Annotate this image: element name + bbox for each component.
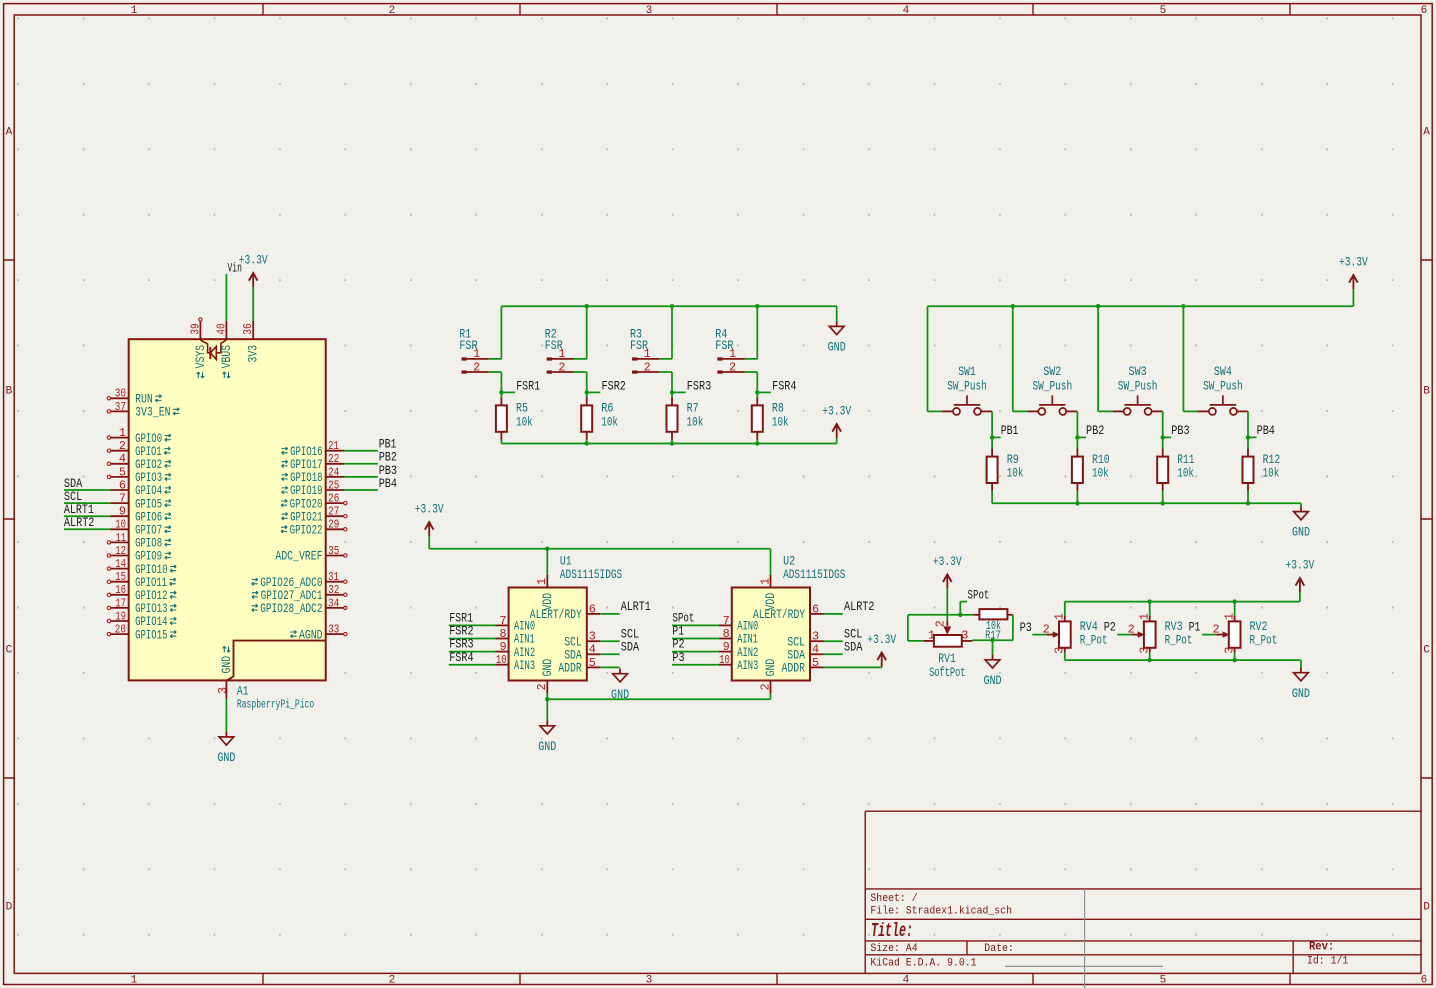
wire + label P3 [672, 650, 719, 665]
svg-text:2: 2 [535, 683, 549, 690]
sensor R4 FSR [715, 327, 744, 375]
svg-text:SW3: SW3 [1129, 364, 1147, 379]
U1 pin 6 ALERT/RDY [530, 602, 601, 622]
svg-text:ALERT/RDY: ALERT/RDY [753, 608, 805, 622]
svg-text:SDA: SDA [564, 649, 582, 663]
pico pin 29 GPIO22 [281, 518, 347, 538]
U A1 RaspberryPi_Pico body [129, 339, 326, 680]
svg-text:R7: R7 [687, 401, 699, 416]
sensor R1 FSR [459, 327, 488, 375]
svg-text:4: 4 [812, 643, 819, 657]
wire node to R17 [960, 614, 973, 616]
U2 ADDR to +3.3V [824, 666, 882, 669]
svg-text:SW1: SW1 [958, 364, 976, 379]
svg-text:P3: P3 [672, 650, 684, 665]
power +3.3V (ADC supply) [415, 502, 444, 536]
svg-text:2: 2 [644, 360, 651, 374]
svg-text:3: 3 [216, 687, 230, 694]
wire RV1 pin1 loop to SPot node [908, 615, 960, 641]
svg-text:19: 19 [115, 609, 126, 623]
U1 pin 1 VDD [535, 575, 555, 611]
svg-text:PB3: PB3 [1171, 423, 1189, 438]
svg-text:29: 29 [328, 518, 339, 532]
svg-text:+3.3V: +3.3V [933, 554, 962, 569]
wire pin2 down to FSR node [745, 372, 758, 392]
svg-text:3: 3 [961, 629, 968, 643]
svg-text:GPIO12: GPIO12 [135, 589, 167, 603]
svg-text:P3: P3 [1020, 620, 1032, 635]
U1 pin 3 SCL [564, 630, 600, 650]
pico pin 7 GPIO5 [110, 492, 170, 512]
pico pin 40 VBUS [214, 321, 234, 378]
pico pin 26 GPIO20 [281, 492, 347, 512]
svg-text:P2: P2 [1104, 619, 1116, 634]
svg-text:A: A [6, 127, 13, 139]
pico pin 27 GPIO21 [282, 505, 347, 525]
svg-text:GPIO2: GPIO2 [135, 458, 162, 472]
svg-text:AIN3: AIN3 [737, 659, 758, 673]
resistor R12 10k [1243, 449, 1281, 491]
svg-text:8: 8 [723, 627, 730, 641]
wire rail drop to switch [1183, 306, 1198, 411]
svg-text:2: 2 [119, 439, 126, 453]
svg-text:3: 3 [1053, 647, 1067, 654]
svg-text:SW_Push: SW_Push [1118, 378, 1158, 393]
svg-text:17: 17 [115, 596, 126, 610]
svg-text:GPIO6: GPIO6 [135, 510, 162, 524]
svg-text:+3.3V: +3.3V [867, 632, 896, 647]
svg-text:FSR: FSR [715, 338, 733, 353]
wire node to resistor [586, 392, 588, 398]
svg-text:AIN1: AIN1 [737, 633, 758, 647]
power +3.3V (switch rail) [1339, 255, 1368, 289]
svg-text:Id: 1/1: Id: 1/1 [1307, 956, 1349, 968]
wire GND bottom rail [1065, 659, 1301, 661]
power +3.3V (FSR pulldown rail) [822, 404, 851, 438]
svg-text:+3.3V: +3.3V [239, 253, 268, 268]
svg-text:ALRT1: ALRT1 [621, 599, 651, 614]
resistor R9 10k [987, 449, 1024, 491]
ground (pico) [217, 732, 235, 765]
svg-text:SPot: SPot [968, 587, 990, 602]
svg-text:C: C [6, 644, 13, 656]
U1 pin 10 AIN3 [496, 653, 536, 673]
svg-text:ALRT2: ALRT2 [64, 515, 95, 530]
U2 pin 8 AIN1 [719, 627, 758, 647]
junction bottom rail [1232, 658, 1236, 662]
svg-text:ADDR: ADDR [558, 662, 582, 676]
wire + label SPot [672, 611, 719, 626]
pico pin 11 GPIO8 [107, 531, 171, 551]
node FSR1 [499, 378, 540, 394]
power +3.3V (SoftPot wiper) [933, 554, 962, 588]
wire resistor to bottom rail [500, 440, 502, 444]
svg-text:PB1: PB1 [1001, 423, 1019, 438]
svg-text:Title:: Title: [871, 920, 913, 942]
svg-text:GPIO14: GPIO14 [135, 615, 167, 629]
svg-text:20: 20 [115, 623, 126, 637]
pico pin 31 GPIO26_ADC0 [252, 570, 347, 590]
svg-text:SW2: SW2 [1043, 364, 1061, 379]
svg-text:4: 4 [903, 5, 910, 17]
wire switch to PB node [991, 411, 993, 437]
U2 pin 1 VDD [758, 575, 778, 611]
svg-text:R11: R11 [1177, 452, 1194, 467]
svg-text:GPIO26_ADC0: GPIO26_ADC0 [260, 576, 322, 590]
svg-text:26: 26 [328, 492, 339, 506]
svg-text:GND: GND [217, 750, 235, 765]
ground (switch pulldown rail) [1292, 506, 1310, 539]
U2 pin 7 AIN0 [719, 614, 759, 634]
svg-text:6: 6 [1421, 5, 1428, 17]
wire + label FSR2 [449, 624, 496, 639]
wire to GND [992, 640, 994, 654]
pico pin 14 GPIO10 [107, 557, 176, 577]
wire resistor to bottom rail [1247, 491, 1249, 504]
svg-text:GND: GND [764, 659, 778, 677]
svg-text:ALERT/RDY: ALERT/RDY [530, 608, 582, 622]
svg-text:7: 7 [499, 614, 506, 628]
resistor R10 10k [1072, 449, 1110, 491]
svg-text:34: 34 [328, 596, 339, 610]
junction top rail [670, 304, 674, 308]
svg-text:PB4: PB4 [379, 476, 397, 491]
svg-text:FSR: FSR [545, 338, 563, 353]
junction U1 GND [545, 697, 549, 701]
svg-text:VSYS: VSYS [194, 345, 208, 369]
wire rail to +3.3V [1299, 592, 1301, 602]
svg-text:GPIO13: GPIO13 [135, 602, 167, 616]
svg-text:31: 31 [328, 570, 339, 584]
wire + label P2 [672, 637, 719, 652]
wire + label ALRT1 [64, 502, 111, 517]
svg-text:GPIO9: GPIO9 [135, 550, 162, 564]
svg-text:B: B [6, 386, 13, 398]
svg-text:RV1: RV1 [938, 651, 956, 666]
svg-text:GND: GND [1292, 525, 1310, 540]
wire U1 VDD drop [546, 549, 548, 575]
pico pin 34 GPIO28_ADC2 [252, 596, 347, 616]
wire node to resistor [1247, 437, 1249, 449]
svg-text:GPIO4: GPIO4 [135, 484, 162, 498]
svg-text:SDA: SDA [787, 649, 805, 663]
junction top rail [1232, 599, 1236, 603]
svg-text:ADS1115IDGS: ADS1115IDGS [560, 567, 623, 582]
svg-text:RaspberryPi_Pico: RaspberryPi_Pico [237, 698, 314, 712]
wire to GND (top rail) [836, 306, 838, 321]
svg-text:10k: 10k [1007, 466, 1024, 481]
U1 pin 4 SDA [564, 643, 600, 663]
wire to +3.3V [252, 287, 254, 321]
svg-text:A: A [1423, 127, 1430, 139]
pico pin 3 GND [216, 646, 234, 699]
svg-text:25: 25 [328, 478, 339, 492]
svg-text:PB2: PB2 [1086, 423, 1104, 438]
power +3.3V (pots) [1286, 558, 1315, 592]
svg-text:3V3_EN: 3V3_EN [135, 406, 170, 420]
wire pin2 down to FSR node [659, 372, 672, 392]
svg-text:GPIO16: GPIO16 [290, 445, 322, 459]
diode graphic inside Pico between VSYS and VBUS [200, 340, 226, 360]
svg-text:6: 6 [589, 602, 596, 616]
junction bottom rail [1075, 501, 1079, 505]
svg-text:ALRT2: ALRT2 [844, 599, 875, 614]
wire U2 VDD drop [770, 549, 772, 575]
svg-text:GPIO28_ADC2: GPIO28_ADC2 [260, 602, 322, 616]
wire pin3 to bottom rail [1149, 653, 1151, 660]
U1 pin 2 GND [535, 659, 555, 694]
svg-text:AIN1: AIN1 [514, 633, 535, 647]
wire + label PB4 [344, 476, 397, 491]
svg-text:10k: 10k [1177, 466, 1194, 481]
switch SW2 SW_Push [1027, 364, 1077, 415]
wire node to resistor [671, 392, 673, 398]
svg-text:9: 9 [723, 640, 730, 654]
svg-text:10k: 10k [772, 414, 789, 429]
junction U1 VDD on rail [545, 547, 549, 551]
pico pin 5 GPIO3 [107, 465, 171, 485]
svg-text:10: 10 [719, 653, 730, 667]
node FSR2 [585, 378, 626, 394]
svg-text:R_Pot: R_Pot [1165, 632, 1193, 647]
svg-text:D: D [1423, 902, 1430, 914]
wire pico GND [225, 699, 227, 732]
svg-text:4: 4 [903, 974, 910, 986]
svg-text:C: C [1423, 644, 1430, 656]
svg-text:GPIO22: GPIO22 [290, 524, 323, 538]
wire down to GND [546, 699, 548, 720]
svg-text:GPIO11: GPIO11 [135, 576, 167, 590]
pico pin 22 GPIO17 [282, 452, 345, 472]
svg-text:SDA: SDA [621, 639, 639, 654]
svg-text:21: 21 [328, 439, 339, 453]
node PB1 [990, 423, 1019, 440]
svg-text:39: 39 [188, 323, 202, 334]
U2 pin 2 GND [758, 659, 778, 694]
sensor R2 FSR [545, 327, 574, 375]
svg-text:GPIO8: GPIO8 [135, 537, 162, 551]
wire resistor to bottom rail [1076, 491, 1078, 504]
svg-text:3: 3 [1138, 647, 1152, 654]
svg-text:GPIO18: GPIO18 [290, 471, 322, 485]
op-amp/ADC U2 ADS1115IDGS body [732, 588, 810, 681]
resistor R6 10k [581, 397, 618, 439]
svg-text:D: D [6, 902, 13, 914]
svg-text:1: 1 [119, 426, 126, 440]
wire rail drop to switch [928, 306, 943, 411]
ground (U1 ADDR) [611, 669, 629, 702]
svg-text:+3.3V: +3.3V [822, 404, 851, 419]
pico pin 17 GPIO13 [107, 596, 176, 616]
svg-text:35: 35 [328, 544, 339, 558]
svg-text:Size: A4: Size: A4 [870, 943, 918, 955]
pico pin 19 GPIO14 [107, 609, 176, 629]
pico pin 21 GPIO16 [282, 439, 345, 459]
wire + label SDA [824, 639, 863, 654]
svg-text:File: Stradex1.kicad_sch: File: Stradex1.kicad_sch [870, 905, 1012, 917]
svg-text:1: 1 [131, 974, 138, 986]
svg-text:GPIO15: GPIO15 [135, 628, 167, 642]
wire switch to PB node [1076, 411, 1078, 437]
wire pin1 to top rail [745, 306, 758, 359]
svg-text:R_Pot: R_Pot [1250, 632, 1278, 647]
pico pin 4 GPIO2 [107, 452, 171, 472]
svg-text:5: 5 [1160, 5, 1167, 17]
resistor R5 10k [496, 397, 533, 439]
wire node to resistor [991, 437, 993, 449]
svg-text:2: 2 [558, 360, 565, 374]
pico pin 16 GPIO12 [107, 583, 176, 603]
svg-text:10k: 10k [601, 414, 618, 429]
svg-text:SCL: SCL [787, 635, 805, 649]
wire + label ALRT1 [600, 599, 651, 614]
pico pin 37 3V3_EN [107, 400, 179, 420]
wire + label P1 [672, 624, 719, 639]
svg-text:1: 1 [131, 5, 138, 17]
svg-text:B: B [1423, 386, 1430, 398]
svg-text:9: 9 [119, 505, 126, 519]
wire + label SDA [600, 639, 639, 654]
wire rail to +3.3V symbol [1352, 289, 1354, 306]
junction bottom rail [755, 441, 759, 445]
junction bottom rail [1161, 501, 1165, 505]
resistor R17 10k (horizontal) [974, 609, 1013, 642]
wire + label PB3 [344, 463, 397, 478]
resistor R11 10k [1157, 449, 1194, 491]
svg-text:AIN2: AIN2 [737, 646, 758, 660]
wire + label FSR1 [449, 611, 496, 626]
svg-text:Rev:: Rev: [1309, 940, 1334, 954]
wire pin3 to bottom rail [1234, 653, 1236, 660]
svg-text:11: 11 [116, 531, 126, 545]
svg-text:FSR1: FSR1 [516, 378, 540, 393]
svg-text:Sheet: /: Sheet: / [870, 893, 918, 905]
svg-text:1: 1 [758, 578, 772, 585]
svg-text:3: 3 [646, 5, 653, 17]
svg-text:GND: GND [1292, 686, 1310, 701]
svg-text:AIN3: AIN3 [514, 659, 535, 673]
U1 pin 9 AIN2 [496, 640, 536, 660]
junction rail [1011, 304, 1015, 308]
node PB2 [1075, 423, 1104, 440]
svg-text:4: 4 [119, 452, 126, 466]
svg-text:SW_Push: SW_Push [1033, 378, 1073, 393]
wire pin2 down to FSR node [574, 372, 587, 392]
svg-text:2: 2 [934, 620, 948, 627]
pico pin 2 GPIO1 [107, 439, 170, 459]
wire resistor to bottom rail [586, 440, 588, 444]
U2 pin 5 ADDR [782, 656, 824, 676]
resistor R7 10k [667, 397, 704, 439]
pico pin 1 GPIO0 [107, 426, 171, 446]
wire + label P3 [1020, 620, 1047, 635]
ground (FSR rail) [828, 321, 846, 354]
wire + label FSR3 [449, 637, 496, 652]
potentiometer RV4 R_Pot [1043, 613, 1108, 654]
svg-text:1: 1 [535, 578, 549, 585]
U2 pin 4 SDA [787, 643, 823, 663]
U1 pin 8 AIN1 [496, 627, 535, 647]
potentiometer RV1 SoftPot [924, 620, 973, 680]
svg-text:P1: P1 [1189, 619, 1201, 634]
power +3.3V (SoftPot wiper) [946, 588, 948, 620]
svg-text:GPIO17: GPIO17 [290, 458, 322, 472]
wire + label SCL [824, 626, 863, 641]
svg-text:+3.3V: +3.3V [1339, 255, 1368, 270]
svg-text:GPIO7: GPIO7 [135, 524, 162, 538]
wire bottom rail to GND [992, 503, 1301, 506]
svg-text:+3.3V: +3.3V [415, 502, 444, 517]
wire bottom rail (+3.3V net) [501, 443, 836, 445]
svg-text:R_Pot: R_Pot [1080, 632, 1108, 647]
svg-text:8: 8 [499, 627, 506, 641]
pico pin 24 GPIO18 [282, 465, 345, 485]
svg-text:ADS1115IDGS: ADS1115IDGS [783, 567, 846, 582]
pico pin 39 VSYS [188, 318, 208, 378]
U2 pin 10 AIN3 [719, 653, 759, 673]
sensor R3 FSR [630, 327, 659, 375]
power +3.3V (pico 3V3) [239, 253, 268, 287]
wire rail drop to switch [1098, 306, 1113, 411]
junction top rail [755, 304, 759, 308]
svg-text:R8: R8 [772, 401, 784, 416]
svg-text:GND: GND [538, 739, 556, 754]
svg-text:6: 6 [812, 602, 819, 616]
wire rail to pin1 [1234, 602, 1236, 616]
pico pin 15 GPIO11 [107, 570, 176, 590]
svg-text:GPIO0: GPIO0 [135, 432, 162, 446]
U1 pin 7 AIN0 [496, 614, 536, 634]
switch SW4 SW_Push [1198, 364, 1248, 415]
U2 pin 6 ALERT/RDY [753, 602, 824, 622]
svg-text:2: 2 [473, 360, 480, 374]
svg-text:14: 14 [115, 557, 126, 571]
wire pin2 down to FSR node [489, 372, 502, 392]
svg-text:VBUS: VBUS [220, 345, 234, 369]
pico pin 20 GPIO15 [107, 623, 176, 643]
svg-text:5: 5 [812, 656, 819, 670]
wire resistor to bottom rail [756, 440, 758, 444]
wire rail to pin1 [1149, 602, 1151, 616]
wire pin3 to bottom rail [1064, 653, 1066, 660]
svg-text:6: 6 [1421, 974, 1428, 986]
wire pin1 to top rail [659, 306, 672, 359]
wire + label P2 [1104, 619, 1132, 634]
power +3.3V (U2 ADDR) [867, 632, 896, 666]
wire resistor to bottom rail [671, 440, 673, 444]
wire R17 right down to bottom [972, 615, 1013, 641]
svg-text:RUN: RUN [135, 393, 153, 407]
node FSR3 [670, 378, 711, 394]
svg-text:10k: 10k [1092, 466, 1109, 481]
svg-text:15: 15 [115, 570, 126, 584]
wire resistor to bottom rail [991, 491, 993, 504]
pico pin 35 ADC_VREF [275, 544, 347, 564]
svg-text:SW4: SW4 [1214, 364, 1232, 379]
wire + label P1 [1189, 619, 1217, 634]
svg-text:10k: 10k [1263, 466, 1280, 481]
wire + label SCL [64, 489, 111, 504]
svg-text:27: 27 [328, 505, 339, 519]
U2 pin 9 AIN2 [719, 640, 759, 660]
svg-text:GND: GND [220, 656, 234, 674]
wire U1 GND / U2 GND common [547, 694, 770, 700]
pico pin 10 GPIO7 [110, 518, 170, 538]
pico AGND bracket line [227, 641, 326, 681]
svg-text:R12: R12 [1263, 452, 1281, 467]
svg-text:2: 2 [389, 974, 396, 986]
junction top rail [585, 304, 589, 308]
